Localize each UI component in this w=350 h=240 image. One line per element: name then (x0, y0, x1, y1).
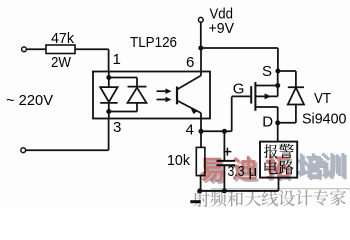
svg-text:1: 1 (113, 51, 121, 68)
svg-text:~ 220V: ~ 220V (6, 92, 53, 109)
svg-text:G: G (233, 81, 245, 98)
svg-text:3: 3 (113, 119, 121, 136)
svg-text:47k: 47k (51, 30, 74, 47)
svg-text:+9V: +9V (209, 20, 235, 37)
svg-text:2W: 2W (51, 54, 72, 71)
svg-text:4: 4 (186, 122, 194, 139)
svg-text:D: D (262, 114, 273, 131)
svg-text:S: S (262, 63, 272, 80)
svg-text:Si9400: Si9400 (302, 111, 347, 128)
svg-text:VT: VT (314, 90, 331, 107)
svg-text:TLP126: TLP126 (130, 34, 177, 51)
svg-text:6: 6 (186, 54, 194, 71)
svg-text:10k: 10k (167, 152, 190, 169)
